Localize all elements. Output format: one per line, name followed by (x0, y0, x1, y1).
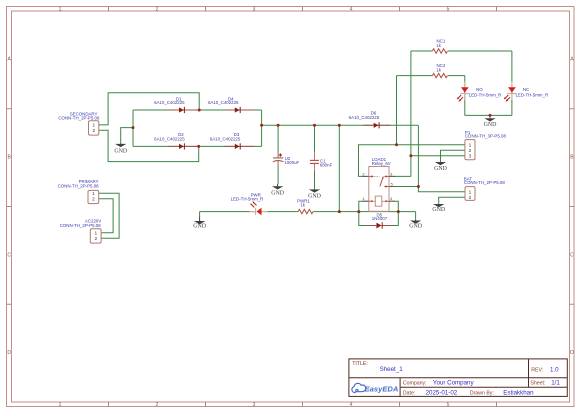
frame column numbers bottom (59, 402, 450, 408)
svg-text:Relay_6V: Relay_6V (372, 161, 391, 166)
svg-text:1: 1 (59, 7, 62, 13)
svg-text:C: C (7, 252, 11, 258)
ground PWR LED (193, 216, 207, 229)
ground U2 (271, 184, 285, 196)
svg-text:GND: GND (434, 166, 448, 172)
connector BAT (464, 177, 506, 201)
svg-text:CONN-TH_2P-P5.08: CONN-TH_2P-P5.08 (60, 223, 102, 228)
frame column numbers top (59, 7, 450, 13)
svg-text:GND: GND (193, 223, 207, 229)
capacitor C1 (310, 152, 333, 171)
title block TITLE label (352, 361, 368, 367)
svg-text:1: 1 (469, 190, 472, 196)
svg-text:1/1: 1/1 (551, 380, 560, 387)
diode D2 (154, 132, 198, 149)
svg-text:GND: GND (432, 207, 446, 213)
connector PRIMARY (58, 179, 100, 203)
svg-text:A: A (8, 57, 12, 63)
ground C1 (308, 189, 322, 200)
svg-text:CONN-TH_2P-P5.08: CONN-TH_2P-P5.08 (58, 116, 100, 121)
ground relay D5 (409, 220, 423, 230)
frame row letters right (570, 57, 574, 356)
svg-text:1N4007: 1N4007 (372, 216, 388, 221)
svg-text:TITLE:: TITLE: (352, 361, 368, 367)
title block company row (403, 380, 475, 387)
svg-text:4: 4 (350, 7, 353, 13)
wire relay pin4 down (389, 201, 398, 211)
svg-text:5: 5 (391, 182, 394, 187)
svg-text:Date:: Date: (403, 390, 415, 396)
wire V+ output rail (262, 124, 419, 126)
svg-text:680nF: 680nF (320, 163, 333, 168)
wire secondary pin1 to bridge node AC1 (99, 93, 199, 125)
svg-text:NO: NO (476, 87, 483, 92)
wire secondary pin2 to bridge node AC2 (99, 130, 199, 161)
wire C1 branch (314, 125, 316, 189)
wire PWR LED row (200, 212, 416, 220)
ground BAT (432, 204, 446, 213)
svg-text:6A10_C402225: 6A10_C402225 (210, 136, 241, 141)
svg-text:2: 2 (92, 128, 95, 134)
junction dots (132, 109, 492, 214)
svg-text:3: 3 (469, 153, 472, 159)
svg-text:2: 2 (469, 148, 472, 154)
svg-text:LED-TH-5mm_R: LED-TH-5mm_R (515, 93, 548, 98)
svg-text:2025-01-02: 2025-01-02 (426, 389, 458, 396)
wire bridge left vertical (132, 110, 134, 146)
LED NC (504, 82, 548, 102)
wire NC2 resistor net (397, 76, 465, 145)
connector P1 (465, 130, 507, 160)
diode D3 (210, 132, 255, 149)
connector AC220V (60, 219, 102, 244)
svg-text:CONN-TH_2P-P5.08: CONN-TH_2P-P5.08 (58, 184, 100, 189)
wire rail end down to relay pin5 node (417, 125, 419, 186)
svg-text:GND: GND (114, 148, 128, 154)
svg-text:1: 1 (362, 196, 365, 201)
capacitor U2 (273, 152, 300, 167)
svg-text:6A10_C402225: 6A10_C402225 (349, 115, 380, 120)
wire BAT pin2 to ground (439, 197, 465, 204)
resistor NC1 (432, 38, 447, 53)
wire relay pin5 to BAT pin1 (389, 187, 465, 192)
svg-text:2: 2 (362, 171, 365, 176)
svg-text:1k: 1k (436, 43, 441, 48)
svg-text:2: 2 (156, 402, 159, 408)
svg-text:5: 5 (447, 402, 450, 408)
svg-text:NC: NC (523, 87, 529, 92)
wire U2 branch (277, 125, 279, 184)
svg-text:Sheet:: Sheet: (530, 381, 545, 387)
wire bridge right vertical (261, 110, 263, 146)
svg-text:GND: GND (484, 122, 498, 128)
svg-text:CONN-TH_2P-P5.08: CONN-TH_2P-P5.08 (464, 180, 506, 185)
ground bridge (114, 143, 128, 154)
svg-text:REV:: REV: (531, 368, 543, 374)
wire relay pin3 to P1 pin3 (389, 156, 465, 177)
EasyEDA logo (352, 383, 398, 393)
relay LOAD1 (362, 157, 396, 211)
wire indicator LEDs cathode bottom (465, 115, 512, 117)
wire bridge bottom rail (133, 145, 262, 147)
svg-text:6A10_C402225: 6A10_C402225 (154, 100, 185, 105)
title block sheet row (530, 380, 560, 387)
diode D4 (208, 96, 255, 113)
resistor NC2 (432, 63, 447, 78)
wire rail to LED row vertical (338, 125, 340, 211)
svg-text:CONN-TH_3P-P5.08: CONN-TH_3P-P5.08 (465, 134, 507, 139)
resistor PWR1 (297, 198, 313, 213)
svg-text:1: 1 (92, 123, 95, 129)
svg-text:1k: 1k (300, 203, 305, 208)
svg-text:4: 4 (350, 402, 353, 408)
LED NO (457, 82, 502, 102)
svg-text:1000uF: 1000uF (284, 160, 299, 165)
svg-text:EasyEDA: EasyEDA (365, 385, 399, 394)
svg-text:2: 2 (92, 197, 95, 203)
svg-text:3: 3 (253, 7, 256, 13)
svg-text:LED-TH-5mm_R: LED-TH-5mm_R (231, 196, 264, 201)
svg-text:D: D (570, 350, 574, 356)
wire NC1 resistor net (411, 51, 512, 176)
title block (349, 359, 567, 397)
connector SECONDARY (58, 111, 100, 135)
wire relay pin2 to P1 pin1 (359, 145, 465, 177)
svg-text:GND: GND (409, 224, 423, 230)
svg-text:2: 2 (156, 7, 159, 13)
svg-text:2: 2 (469, 195, 472, 201)
wire relay pin1 down (359, 201, 369, 211)
svg-text:1.0: 1.0 (550, 367, 559, 374)
wire primary pin1 to AC220V pin2 (99, 193, 119, 238)
diode D1 (154, 96, 198, 113)
svg-text:Company:: Company: (403, 381, 427, 387)
ground indicator LEDs (484, 118, 498, 128)
svg-text:GND: GND (271, 190, 285, 196)
svg-text:Sheet_1: Sheet_1 (380, 366, 404, 373)
svg-text:Estiakkhan: Estiakkhan (503, 389, 534, 396)
wire bridge top rail (133, 109, 262, 111)
wire bridge to ground branch (121, 128, 133, 144)
svg-text:Drawn By:: Drawn By: (470, 390, 494, 396)
svg-text:5: 5 (447, 7, 450, 13)
svg-text:1: 1 (92, 191, 95, 197)
svg-text:1: 1 (94, 231, 97, 237)
svg-text:2: 2 (94, 236, 97, 242)
ground P1 (434, 162, 448, 172)
wire primary pin2 to AC220V pin1 (99, 199, 113, 233)
wire P1 pin2 to ground (441, 150, 465, 161)
svg-text:1: 1 (469, 142, 472, 148)
svg-text:C: C (570, 252, 574, 258)
svg-text:D: D (7, 350, 11, 356)
title block sheet name (380, 366, 404, 373)
title block REV (531, 367, 559, 374)
title block date row (403, 389, 534, 396)
svg-text:1: 1 (59, 402, 62, 408)
svg-text:GND: GND (308, 193, 322, 199)
svg-text:6A10_C402225: 6A10_C402225 (208, 100, 239, 105)
svg-text:6A10_C402225: 6A10_C402225 (154, 136, 185, 141)
svg-text:LED-TH-5mm_R: LED-TH-5mm_R (469, 93, 502, 98)
svg-text:3: 3 (253, 402, 256, 408)
wire D5 flyback loop (359, 212, 399, 226)
diode D6 (349, 111, 390, 129)
svg-text:1k: 1k (436, 68, 441, 73)
svg-text:Your Company: Your Company (433, 380, 475, 387)
LED PWR (231, 193, 268, 216)
svg-text:B: B (8, 155, 12, 161)
svg-text:3: 3 (390, 171, 393, 176)
diode D5 (367, 212, 392, 228)
svg-text:4: 4 (390, 196, 393, 201)
frame row letters left (7, 57, 11, 356)
